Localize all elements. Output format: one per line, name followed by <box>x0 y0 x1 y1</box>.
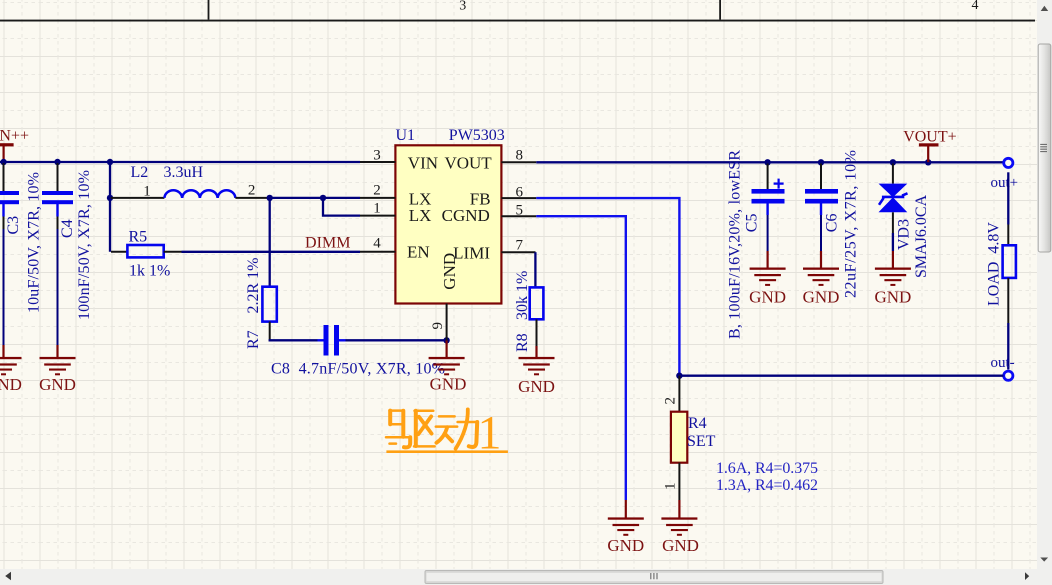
svg-text:VIN: VIN <box>408 154 438 173</box>
svg-text:LX: LX <box>409 206 432 225</box>
node junction VOUT+ <box>925 159 931 165</box>
title text 驱动1 (hand-drawn strokes) <box>386 409 477 448</box>
U1 pin 8 VOUT <box>444 148 536 173</box>
svg-text:LOAD 4.8V: LOAD 4.8V <box>986 222 1003 306</box>
power port VIN++ <box>0 127 29 162</box>
node junction LX step <box>320 195 326 201</box>
wire C8 to GND pin <box>346 339 447 341</box>
wire LOAD to out- <box>1007 323 1009 370</box>
svg-text:1: 1 <box>143 183 151 199</box>
resistor R4 SET <box>663 376 716 500</box>
svg-text:1: 1 <box>373 201 381 217</box>
svg-text:GND: GND <box>0 375 22 394</box>
svg-text:3.3uH: 3.3uH <box>164 164 204 181</box>
svg-text:4: 4 <box>972 0 979 13</box>
capacitor C6 <box>805 150 860 298</box>
svg-text:100nF/50V, X7R, 10%: 100nF/50V, X7R, 10% <box>76 170 93 320</box>
svg-text:6: 6 <box>516 185 524 201</box>
title underline <box>386 450 508 453</box>
svg-text:GND: GND <box>440 253 459 290</box>
svg-text:GND: GND <box>874 288 911 307</box>
svg-text:VOUT: VOUT <box>444 154 492 173</box>
resistor R8 <box>514 271 544 352</box>
svg-text:8: 8 <box>516 148 524 164</box>
svg-text:R4: R4 <box>688 415 707 432</box>
U1 pin 5 CGND <box>442 202 537 225</box>
svg-text:7: 7 <box>516 238 524 254</box>
wire LIMI to R8 <box>534 252 536 287</box>
sheet border line <box>0 0 1035 22</box>
node junction L2 pin2 <box>267 195 273 201</box>
capacitor C4 <box>42 163 93 320</box>
svg-text:22uF/25V, X7R, 10%: 22uF/25V, X7R, 10% <box>843 150 860 298</box>
bottom scrollbar <box>0 569 1037 585</box>
svg-text:GND: GND <box>39 375 76 394</box>
ground GND (C5) <box>749 251 786 307</box>
svg-text:2: 2 <box>373 182 381 198</box>
note text R4 values <box>716 460 818 494</box>
svg-text:VIN++: VIN++ <box>0 127 29 144</box>
ground GND (U1 pin9) <box>429 340 467 393</box>
U1 pin 6 FB <box>470 185 536 209</box>
svg-text:GND: GND <box>749 288 786 307</box>
wire LX lower step <box>323 198 360 216</box>
node junction FB/R4/out- <box>676 373 682 379</box>
resistor LOAD 4.8V <box>986 222 1016 323</box>
ground GND (R8) <box>518 346 555 396</box>
svg-text:CGND: CGND <box>442 206 490 225</box>
svg-text:R7: R7 <box>245 330 262 349</box>
svg-text:1: 1 <box>663 483 679 491</box>
svg-text:1.6A, R4=0.375: 1.6A, R4=0.375 <box>716 460 818 477</box>
svg-text:R5: R5 <box>129 229 148 246</box>
node junction VD3 <box>890 159 896 165</box>
svg-text:2.2R 1%: 2.2R 1% <box>245 258 262 314</box>
svg-text:SMAJ6.0CA: SMAJ6.0CA <box>913 194 930 278</box>
ground GND (C6) <box>803 251 840 307</box>
node out- open circle <box>1004 371 1013 380</box>
ground GND (C4) <box>39 345 76 394</box>
svg-text:DIMM: DIMM <box>305 234 351 251</box>
svg-text:L2: L2 <box>131 164 149 181</box>
svg-text:GND: GND <box>430 375 467 394</box>
svg-text:9: 9 <box>430 322 446 330</box>
svg-text:GND: GND <box>803 288 840 307</box>
svg-text:SET: SET <box>687 433 716 450</box>
svg-text:C6: C6 <box>823 214 840 233</box>
svg-text:out+: out+ <box>991 175 1019 191</box>
wire R5 to EN (DIMM net) <box>182 251 361 253</box>
svg-text:out-: out- <box>991 355 1015 371</box>
wire C3 to ground <box>3 229 5 345</box>
wire L2 node down to R7 <box>269 198 271 287</box>
svg-text:GND: GND <box>518 377 555 396</box>
svg-text:VOUT+: VOUT+ <box>903 128 956 145</box>
svg-text:GND: GND <box>662 536 699 555</box>
svg-text:C5: C5 <box>744 214 761 233</box>
svg-text:U1: U1 <box>396 127 416 144</box>
wire C4 to ground <box>57 229 59 345</box>
svg-text:10uF/50V, X7R, 10%: 10uF/50V, X7R, 10% <box>26 172 43 313</box>
node junction C5 <box>764 159 770 165</box>
svg-text:C4: C4 <box>59 219 76 238</box>
svg-text:B, 100uF/16V,20%, lowESR: B, 100uF/16V,20%, lowESR <box>726 150 743 339</box>
U1 pin 2 LX <box>360 182 431 208</box>
U1 pin 4 EN <box>360 235 430 261</box>
wire CGND net <box>536 216 626 500</box>
svg-text:3: 3 <box>459 0 466 14</box>
capacitor C5 <box>726 150 784 339</box>
U1 pin 1 LX <box>360 201 431 226</box>
node junction L2 pin1 <box>107 195 113 201</box>
ground GND (C3) <box>0 345 22 394</box>
wire FB net <box>536 198 679 374</box>
svg-text:C3: C3 <box>5 216 22 235</box>
wire VIN vertical to R5 <box>109 162 111 252</box>
svg-text:1k 1%: 1k 1% <box>129 263 170 280</box>
svg-text:C8 4.7nF/50V, X7R, 10%: C8 4.7nF/50V, X7R, 10% <box>271 361 445 378</box>
power port VOUT+ <box>903 128 956 162</box>
wire VOUT rail <box>536 161 1003 163</box>
U1 pin 7 LIMI <box>453 238 535 263</box>
inductor L2 <box>111 164 268 199</box>
wire VIN rail <box>0 161 360 163</box>
diode VD3 TVS <box>879 164 931 279</box>
ground GND (CGND net) <box>607 500 644 555</box>
svg-text:VD3: VD3 <box>895 219 912 250</box>
svg-text:PW5303: PW5303 <box>449 127 505 144</box>
svg-text:R8: R8 <box>514 333 531 352</box>
U1 pin 9 GND <box>430 253 459 340</box>
U1 pin 3 VIN <box>360 148 438 173</box>
svg-text:30k 1%: 30k 1% <box>514 271 531 320</box>
wire out+ to LOAD <box>1007 172 1009 224</box>
node junction C6 <box>818 159 824 165</box>
op-amp U1 PW5303 body <box>395 127 504 304</box>
right scrollbar <box>1037 0 1052 585</box>
svg-text:5: 5 <box>516 202 524 218</box>
node out+ open circle <box>1004 158 1013 167</box>
resistor R5 <box>111 229 182 280</box>
svg-text:3: 3 <box>373 148 381 164</box>
capacitor C8 <box>271 325 445 378</box>
svg-text:EN: EN <box>407 243 430 262</box>
svg-text:2: 2 <box>663 397 679 405</box>
wire L2 to LX pins <box>270 197 360 199</box>
node junction VIN/C4 <box>54 159 60 165</box>
svg-text:GND: GND <box>607 536 644 555</box>
node junction VIN/L2 <box>107 159 113 165</box>
node junction VIN/C3 <box>0 159 6 165</box>
ground GND (VD3) <box>874 251 911 307</box>
svg-text:2: 2 <box>248 182 256 198</box>
svg-text:1.3A, R4=0.462: 1.3A, R4=0.462 <box>716 477 818 494</box>
node junction pin9/GND <box>443 337 449 343</box>
resistor R7 <box>245 258 277 350</box>
ground GND (R4) <box>661 500 699 555</box>
capacitor C3 <box>0 163 43 313</box>
svg-text:4: 4 <box>373 235 381 251</box>
wire R7 to C8 <box>270 339 318 340</box>
wire out- rail <box>679 375 1003 377</box>
